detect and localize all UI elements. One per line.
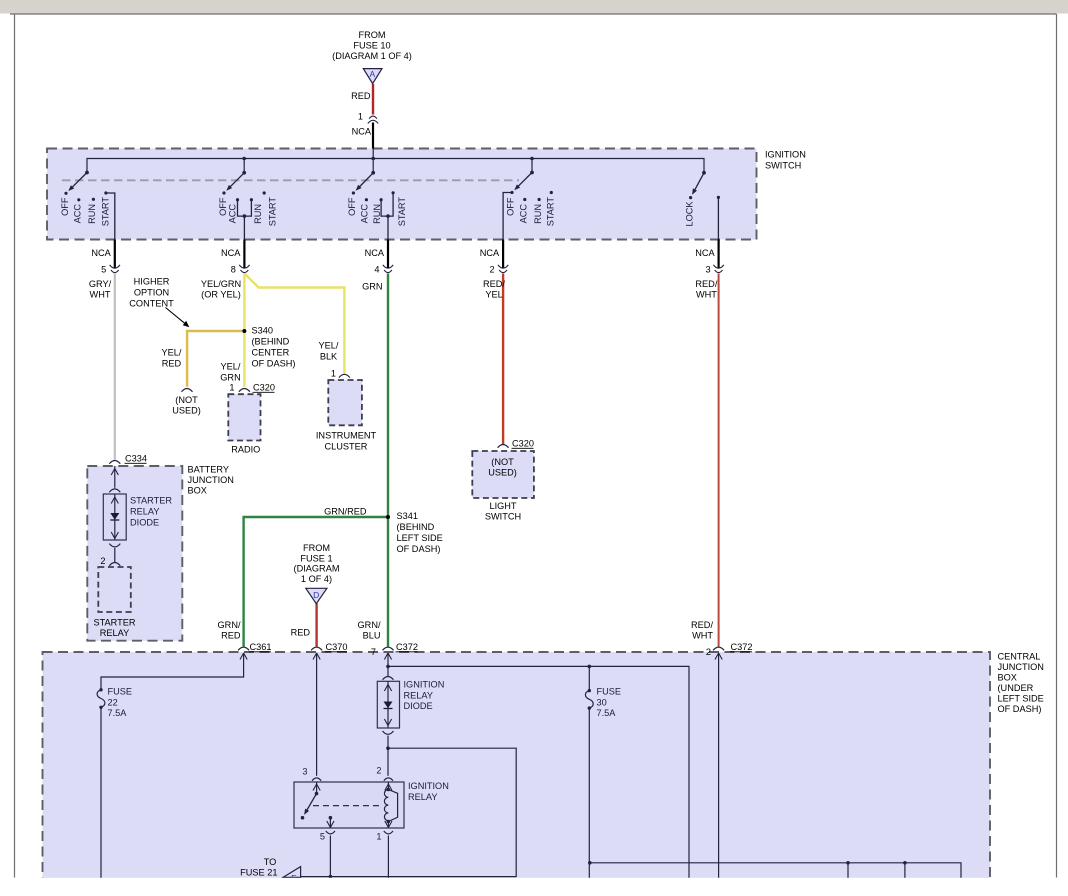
ignition relay diode box	[377, 681, 399, 728]
svg-text:SWITCH: SWITCH	[485, 512, 521, 522]
svg-text:NCA: NCA	[221, 248, 241, 258]
wire GRY/WHT pin5 to C334	[114, 274, 116, 460]
node S341	[386, 515, 390, 519]
wire branch at diode bottom going right and down	[388, 748, 516, 877]
wire RED/YEL pin2 to light switch	[502, 274, 504, 445]
wire C370 to relay pin 3	[316, 653, 318, 776]
wire battery box entry	[114, 466, 116, 488]
svg-text:CENTRAL: CENTRAL	[998, 652, 1041, 662]
wire RED from fuse 1 triangle to C370	[315, 604, 317, 647]
svg-text:FUSE 10: FUSE 10	[353, 41, 390, 51]
svg-text:LIGHT: LIGHT	[489, 501, 516, 511]
svg-text:OFF: OFF	[218, 197, 228, 216]
svg-text:GRN/: GRN/	[218, 620, 241, 630]
svg-text:C361: C361	[250, 642, 272, 652]
svg-text:30: 30	[597, 697, 607, 707]
svg-text:D: D	[313, 590, 319, 600]
svg-text:C372: C372	[396, 642, 418, 652]
wire fuse 22 to bottom	[100, 707, 102, 884]
svg-text:BOX: BOX	[188, 486, 207, 496]
svg-text:ACC: ACC	[519, 204, 529, 224]
svg-text:NCA: NCA	[365, 248, 385, 258]
svg-text:RED: RED	[162, 359, 182, 369]
svg-text:GRY/: GRY/	[89, 279, 112, 289]
arrow down inside ignition diode	[384, 719, 391, 726]
arrow up into C372	[384, 653, 391, 660]
arrow down to relay pin 1	[385, 821, 392, 828]
svg-text:5: 5	[320, 832, 325, 842]
wire bottom left to fuse 21	[301, 876, 517, 878]
svg-text:INSTRUMENT: INSTRUMENT	[316, 431, 377, 441]
svg-text:YEL/GRN: YEL/GRN	[201, 279, 241, 289]
svg-text:C320: C320	[512, 439, 534, 449]
triangle A from fuse 10	[363, 69, 382, 84]
relay coil to pin 1	[387, 822, 389, 829]
bridge junction dots	[243, 214, 247, 218]
svg-text:BATTERY: BATTERY	[188, 465, 230, 475]
pin 8 connector arcs	[239, 265, 249, 273]
svg-text:FUSE 1: FUSE 1	[300, 553, 332, 563]
svg-text:OFF: OFF	[347, 197, 357, 216]
svg-text:C334: C334	[125, 454, 147, 464]
mechanical linkage dashed line	[62, 179, 519, 181]
svg-text:STARTER: STARTER	[130, 496, 172, 506]
light switch box	[472, 451, 534, 498]
svg-text:1: 1	[331, 369, 336, 379]
svg-text:JUNCTION: JUNCTION	[998, 662, 1044, 672]
svg-text:A: A	[369, 69, 375, 79]
relay coil	[384, 790, 388, 821]
triangle D from fuse 1	[306, 588, 327, 603]
svg-text:1 OF 4): 1 OF 4)	[301, 574, 332, 584]
pin 4 stub wire	[387, 240, 389, 269]
starter relay diode internal wire	[114, 494, 116, 540]
connector ignition relay pin 2	[384, 778, 393, 781]
starter relay box	[98, 567, 131, 612]
svg-text:RED: RED	[221, 630, 241, 640]
pin 1 connector arcs	[368, 116, 378, 123]
wire NCA feed into ignition switch	[372, 123, 374, 149]
pin 8 stub wire	[243, 240, 245, 269]
wire diode to relay pin 2	[387, 736, 389, 776]
svg-text:7.5A: 7.5A	[108, 708, 128, 718]
svg-text:S340: S340	[252, 326, 273, 336]
svg-text:2: 2	[706, 647, 711, 657]
pin 3 connector arcs	[713, 265, 723, 273]
svg-text:RELAY: RELAY	[408, 792, 437, 802]
wire RED/WHT pin3 to C372	[718, 274, 720, 647]
arrow down inside starter diode	[111, 532, 118, 539]
connector ignition relay diode top	[383, 677, 394, 680]
svg-text:CLUSTER: CLUSTER	[325, 441, 368, 451]
connector C361	[238, 647, 249, 650]
svg-text:RED/: RED/	[691, 620, 713, 630]
lock contact dots	[689, 196, 692, 199]
wire diode to starter relay	[114, 548, 116, 562]
connector C334	[109, 461, 120, 464]
wire fuse 30 to bottom bus	[588, 708, 590, 884]
svg-text:BLK: BLK	[320, 352, 338, 362]
svg-text:FROM: FROM	[358, 30, 385, 40]
svg-text:YEL/: YEL/	[319, 341, 339, 351]
connector C370	[311, 647, 322, 650]
connector starter relay pin 2	[109, 563, 120, 566]
connector C372 red-white	[713, 647, 724, 650]
svg-text:GRN: GRN	[362, 282, 382, 292]
relay coil feed	[387, 782, 389, 790]
svg-text:RED: RED	[291, 628, 311, 638]
wire C361 to fuse 22	[101, 653, 244, 689]
wire feed to switch 3 pivot	[372, 149, 374, 173]
svg-text:8: 8	[231, 264, 236, 274]
svg-text:(NOT: (NOT	[175, 395, 198, 405]
connector ignition relay pin 5	[326, 831, 335, 834]
bus junction dots	[242, 157, 246, 161]
wire C372 to ignition relay diode	[387, 653, 389, 676]
arrow up inside starter diode	[111, 497, 118, 504]
triangle E to fuse 21	[283, 867, 301, 878]
svg-text:CENTER: CENTER	[252, 348, 290, 358]
wire YEL/BLK branch to instrument cluster	[244, 274, 344, 374]
svg-text:ACC: ACC	[73, 204, 83, 224]
svg-text:USED): USED)	[172, 406, 201, 416]
diode symbol ignition relay diode	[384, 702, 393, 709]
wire relay pin 1 down	[387, 836, 389, 885]
svg-text:RUN: RUN	[87, 204, 97, 224]
diode symbol starter relay diode	[110, 513, 119, 520]
svg-text:(DIAGRAM 1 OF 4): (DIAGRAM 1 OF 4)	[332, 51, 412, 61]
svg-text:LEFT SIDE: LEFT SIDE	[397, 533, 443, 543]
relay linkage dashed line	[313, 805, 381, 807]
relay common contact to pin 5	[329, 816, 333, 820]
window chrome top bar	[0, 0, 1068, 14]
svg-text:RELAY: RELAY	[130, 507, 159, 517]
svg-text:FUSE: FUSE	[597, 687, 622, 697]
switch 3 blade	[359, 173, 373, 188]
svg-text:HIGHER: HIGHER	[134, 277, 170, 287]
relay blade	[306, 794, 316, 811]
connector instrument cluster pin 1	[339, 374, 350, 377]
switch 4 blade	[517, 173, 532, 188]
wire RED from fuse 10 triangle	[372, 84, 374, 115]
svg-text:ACC: ACC	[360, 204, 370, 224]
svg-text:OF DASH): OF DASH)	[252, 359, 296, 369]
node S340	[242, 329, 246, 333]
svg-text:2: 2	[100, 556, 105, 566]
switch 4 contact dots	[510, 191, 513, 194]
svg-text:(UNDER: (UNDER	[998, 683, 1034, 693]
svg-text:YEL/: YEL/	[221, 362, 241, 372]
wire drop to switch 2 pivot	[243, 159, 245, 173]
svg-text:(NOT: (NOT	[491, 457, 514, 467]
svg-text:START: START	[397, 197, 407, 227]
svg-text:NCA: NCA	[91, 248, 111, 258]
svg-text:IGNITION: IGNITION	[408, 781, 449, 791]
switch 4 output wire OFF to pin 2	[503, 193, 512, 240]
arrow up to relay pin 2	[385, 784, 392, 791]
instrument cluster box	[328, 380, 362, 425]
svg-text:7.5A: 7.5A	[597, 708, 617, 718]
relay switch feed wire	[316, 782, 318, 794]
fuse 30	[588, 689, 591, 692]
svg-text:1: 1	[358, 112, 363, 122]
radio box	[228, 394, 260, 440]
svg-text:START: START	[546, 197, 556, 227]
switch 3 contact dots	[352, 191, 355, 194]
svg-text:NCA: NCA	[352, 127, 372, 137]
connector starter diode bottom	[109, 544, 120, 547]
svg-text:FROM: FROM	[303, 543, 330, 553]
svg-text:NCA: NCA	[695, 248, 715, 258]
switch 2 blade	[229, 173, 244, 188]
wire YEL/GRN pin8 down to radio	[243, 274, 245, 387]
svg-text:WHT: WHT	[90, 289, 111, 299]
fuse 22	[99, 688, 102, 691]
svg-text:GRN/RED: GRN/RED	[324, 507, 367, 517]
svg-text:YEL/: YEL/	[162, 348, 182, 358]
arrow up into C361	[240, 653, 247, 660]
arrow up inside ignition diode	[384, 685, 391, 692]
arrow up into C334	[111, 469, 118, 476]
svg-text:RUN: RUN	[533, 204, 543, 224]
svg-text:FUSE: FUSE	[108, 687, 133, 697]
svg-text:3: 3	[705, 264, 710, 274]
svg-text:TO: TO	[264, 857, 277, 867]
svg-text:YEL: YEL	[485, 289, 502, 299]
svg-text:(OR YEL): (OR YEL)	[201, 289, 241, 299]
svg-text:2: 2	[489, 264, 494, 274]
pivot junction dots	[85, 171, 89, 175]
svg-text:GRN: GRN	[220, 373, 240, 383]
svg-text:OF DASH): OF DASH)	[998, 704, 1042, 714]
svg-text:5: 5	[101, 264, 106, 274]
wire drop to switch 4 pivot	[531, 159, 533, 173]
svg-text:RED/: RED/	[695, 279, 717, 289]
svg-text:7: 7	[371, 647, 376, 657]
svg-text:(DIAGRAM: (DIAGRAM	[294, 564, 340, 574]
connector starter diode top	[109, 489, 120, 492]
svg-text:3: 3	[302, 767, 307, 777]
svg-text:IGNITION: IGNITION	[404, 680, 445, 690]
central junction box	[43, 652, 991, 884]
svg-text:DIODE: DIODE	[404, 701, 433, 711]
wire GRN/RED from S341 to C361	[244, 517, 388, 647]
ignition relay diode internal wire	[387, 681, 389, 728]
svg-text:BLU: BLU	[363, 630, 381, 640]
svg-text:IGNITION: IGNITION	[765, 150, 806, 160]
svg-text:OPTION: OPTION	[134, 288, 169, 298]
connector C372 green	[383, 647, 394, 650]
svg-text:C320: C320	[253, 383, 275, 393]
switch 1 blade	[72, 173, 88, 188]
switch 2 output bridge ACC-RUN to pin 8	[238, 200, 252, 240]
svg-text:SWITCH: SWITCH	[765, 161, 801, 171]
svg-text:JUNCTION: JUNCTION	[188, 475, 234, 485]
svg-text:RUN: RUN	[253, 204, 263, 224]
connector C320 radio pin 1	[239, 389, 250, 392]
svg-text:LEFT SIDE: LEFT SIDE	[998, 694, 1044, 704]
wire bottom bus	[590, 863, 961, 884]
ignition switch box	[47, 149, 757, 240]
svg-text:22: 22	[108, 697, 118, 707]
svg-text:RADIO: RADIO	[231, 445, 260, 455]
wire RED/WHT inside box down	[718, 653, 720, 884]
svg-text:USED): USED)	[488, 468, 517, 478]
wire drop from bus dot 848	[847, 863, 849, 884]
lock switch output wire to pin 3	[717, 197, 719, 239]
ignition relay box	[294, 782, 404, 828]
svg-text:FUSE 21: FUSE 21	[240, 867, 277, 877]
wire YEL/RED branch from S340 to not used	[187, 331, 244, 387]
pin 4 connector arcs	[383, 265, 393, 273]
svg-text:1: 1	[229, 383, 234, 393]
wire relay pin 5 down	[329, 836, 331, 877]
connector ignition relay diode bottom	[383, 731, 394, 734]
svg-text:(BEHIND: (BEHIND	[397, 522, 435, 532]
connector C320 light switch	[498, 445, 509, 448]
wire drop to fuse 30	[588, 666, 590, 690]
svg-text:ACC: ACC	[228, 204, 238, 224]
switch 3 output bridge RUN-START to pin 4	[381, 193, 393, 240]
svg-text:CONTENT: CONTENT	[129, 299, 174, 309]
pin 5 connector arcs	[110, 265, 120, 273]
svg-text:4: 4	[374, 264, 379, 274]
lock switch blade	[694, 173, 704, 191]
svg-text:OFF: OFF	[60, 197, 70, 216]
svg-text:RELAY: RELAY	[100, 628, 129, 638]
battery junction box	[87, 466, 182, 641]
connector ignition relay pin 1	[384, 831, 393, 834]
pin 2 stub wire	[502, 240, 504, 269]
pin 2 connector arcs	[498, 265, 508, 273]
svg-text:RELAY: RELAY	[404, 690, 433, 700]
arrow up to relay pin 3	[313, 784, 320, 791]
wire drop from bus dot 905	[904, 863, 906, 884]
connector arc NOT USED end	[182, 389, 193, 392]
pin 5 stub wire	[114, 240, 116, 269]
connector ignition relay pin 3	[312, 778, 321, 781]
svg-text:RED/: RED/	[483, 279, 505, 289]
svg-text:RUN: RUN	[372, 204, 382, 224]
svg-text:START: START	[101, 197, 111, 227]
svg-text:LOCK: LOCK	[685, 201, 695, 227]
svg-text:OFF: OFF	[506, 197, 516, 216]
svg-text:WHT: WHT	[692, 630, 713, 640]
svg-text:NCA: NCA	[480, 248, 500, 258]
svg-text:DIODE: DIODE	[130, 518, 159, 528]
svg-text:(BEHIND: (BEHIND	[252, 337, 290, 347]
switch 1 output wire START to pin 5	[106, 193, 115, 240]
svg-text:BOX: BOX	[998, 673, 1017, 683]
svg-text:WHT: WHT	[696, 289, 717, 299]
wire bus in ignition switch	[87, 159, 704, 173]
svg-text:GRN/: GRN/	[358, 620, 381, 630]
svg-text:1: 1	[376, 832, 381, 842]
pin 3 stub wire	[717, 240, 719, 269]
wire branch to fuse 30 and right vertical	[388, 666, 689, 884]
arrow higher option content	[166, 308, 186, 325]
svg-text:START: START	[268, 197, 278, 227]
starter relay diode box	[103, 494, 126, 540]
switch 1 contact dots	[64, 192, 67, 195]
svg-text:RED: RED	[351, 91, 371, 101]
arrow up into C370	[313, 653, 320, 660]
switch 2 contact dots	[222, 191, 225, 194]
arrow up into C372 red-white	[715, 653, 722, 660]
svg-text:STARTER: STARTER	[93, 618, 135, 628]
svg-text:S341: S341	[397, 511, 418, 521]
svg-text:OF DASH): OF DASH)	[397, 544, 441, 554]
svg-text:C372: C372	[731, 642, 753, 652]
arrow down to relay pin 5	[327, 821, 334, 828]
svg-text:2: 2	[376, 766, 381, 776]
svg-text:C370: C370	[326, 642, 348, 652]
wire GRN pin4 down to C372	[387, 274, 389, 647]
bottom white strip	[0, 878, 1068, 896]
